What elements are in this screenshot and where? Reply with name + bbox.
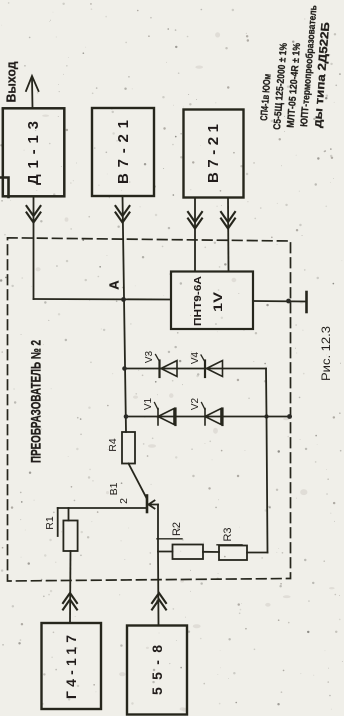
svg-text:V1: V1 [143, 397, 154, 410]
svg-text:2: 2 [118, 498, 130, 504]
wire from PNT9 right to terminal [253, 300, 306, 303]
horizontal wire to PNT9 box [34, 298, 172, 301]
wire emitter junction to R2 [158, 551, 173, 553]
box G4-117 (generator Г4-117) [42, 623, 102, 709]
svg-text:R4: R4 [107, 438, 119, 452]
junction dot rail2 right end [287, 414, 292, 419]
box V7-21 second (instrument В7-21) [184, 110, 244, 198]
wire B from V7-21 second down [227, 198, 230, 271]
thermal converter box PNT9-6A (ПНТ9-6А) [171, 272, 253, 330]
wire R2 to R3 [203, 551, 219, 553]
diode rail upper (V3 V4 rail) [125, 368, 267, 370]
transistor B1 bar [146, 496, 149, 513]
chevron arrow below V7-21 first [116, 206, 130, 223]
svg-text:Выход: Выход [5, 61, 19, 102]
chevron arrow on wire A [188, 212, 202, 229]
chevron arrow up from G4-117 [63, 593, 77, 610]
svg-text:В1: В1 [108, 482, 120, 495]
svg-text:R2: R2 [171, 522, 183, 536]
svg-text:1V: 1V [213, 292, 225, 312]
svg-text:R1: R1 [44, 516, 56, 530]
svg-text:V4: V4 [190, 351, 201, 364]
wire R3 right to vertical [247, 552, 268, 554]
junction dot rail1 [122, 366, 127, 371]
junction dot on dashed edge [286, 299, 291, 304]
svg-text:В7-21: В7-21 [205, 124, 222, 183]
svg-text:А: А [107, 280, 122, 290]
resistor R3 [217, 527, 247, 560]
box D1-13 (instrument Д1-13) [3, 108, 65, 196]
wire R1 to G4-117 arrow [69, 551, 72, 623]
base wire left corner drop [57, 508, 59, 536]
chevron arrow below D1-13 [27, 206, 41, 223]
diode V3 [144, 350, 177, 377]
svg-text:R3: R3 [222, 527, 234, 541]
wire A from V7-21 second down [194, 198, 196, 271]
chevron arrow up from 55-8 [152, 593, 166, 610]
box V7-21 first (instrument В7-21) [92, 108, 154, 196]
junction node A dot [121, 297, 126, 302]
box 55-8 (instrument 55-8) [127, 626, 187, 715]
resistor R1 [44, 508, 78, 551]
output arrow wire [31, 78, 34, 108]
emitter wire down to 55-8 [157, 505, 160, 626]
svg-text:ПНТ9-6А: ПНТ9-6А [192, 276, 204, 326]
svg-text:V3: V3 [144, 350, 155, 363]
diode V2 [190, 397, 223, 425]
base wire from R1 to transistor [58, 507, 147, 509]
transistor B1 collector diagonal [129, 464, 147, 499]
svg-text:Рис. 12.3: Рис. 12.3 [321, 326, 333, 381]
svg-text:ПРЕОБРАЗОВАТЕЛЬ № 2: ПРЕОБРАЗОВАТЕЛЬ № 2 [29, 340, 44, 463]
chevron arrow on wire B [221, 212, 235, 229]
terminal bar (ground electrode) [305, 292, 308, 312]
wire from V7-21 first down (main vertical) [123, 196, 127, 432]
junction dot rail2 at right drop [264, 414, 268, 418]
transistor B1 emitter with arrow [149, 501, 159, 509]
diode rail lower (V1 V2 rail) [126, 416, 291, 418]
diode V4 [190, 351, 223, 377]
output arrowhead [26, 76, 39, 91]
junction dot rail2 left [124, 414, 129, 419]
page edge bracket mark [0, 178, 9, 198]
diode V1 [143, 397, 176, 425]
resistor R4 [107, 432, 135, 464]
dashed enclosure box (converter boundary) [8, 238, 291, 581]
resistor R2 [157, 522, 203, 559]
svg-text:V2: V2 [190, 397, 201, 410]
wire from D1-13 down [33, 197, 35, 300]
right vertical wire rail1 to R3 [266, 369, 268, 553]
